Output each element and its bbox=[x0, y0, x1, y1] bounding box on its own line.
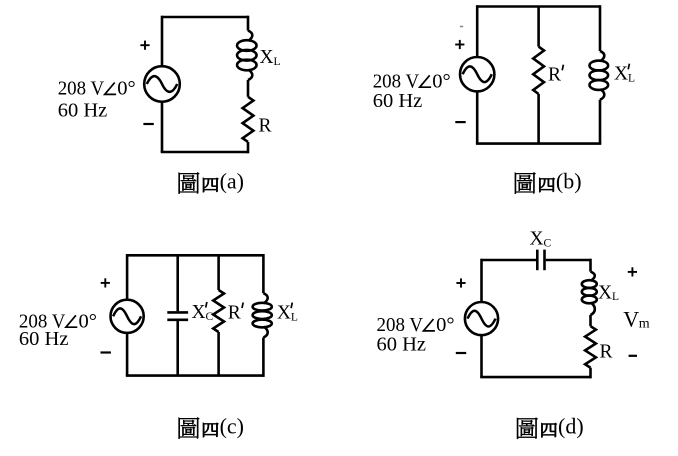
wire right lower (d) bbox=[589, 368, 592, 379]
label XC (d) bbox=[530, 229, 552, 250]
plus terminal (a) bbox=[140, 41, 149, 50]
faint scan artifact dash (b) bbox=[460, 26, 463, 28]
minus terminal (c) bbox=[101, 351, 111, 353]
svg-text:0°: 0° bbox=[436, 314, 454, 336]
svg-text:L: L bbox=[628, 73, 635, 85]
wire right lower (a) bbox=[247, 142, 250, 153]
svg-text:V: V bbox=[623, 306, 639, 331]
wire middle upper (b) bbox=[537, 7, 540, 47]
svg-text:R: R bbox=[600, 341, 613, 362]
label XL' (b) bbox=[614, 64, 635, 85]
inductor XL' (c) bbox=[253, 293, 272, 337]
svg-text:X: X bbox=[598, 282, 612, 303]
svg-text:C: C bbox=[206, 311, 214, 323]
svg-text:(a): (a) bbox=[220, 168, 244, 193]
wire left lower (a) bbox=[161, 102, 164, 152]
wire left upper (b) bbox=[476, 5, 479, 57]
svg-text:C: C bbox=[544, 238, 552, 250]
wire coil lower (c) bbox=[262, 338, 265, 377]
plus terminal Vm (d) bbox=[628, 267, 637, 276]
minus terminal Vm (d) bbox=[629, 355, 637, 357]
inductor XL (a) bbox=[237, 31, 256, 80]
wire right lower (b) bbox=[599, 100, 602, 144]
svg-text:R: R bbox=[548, 65, 561, 86]
(c): source value text 208 V angle 0 deg, 60 Hz bbox=[19, 310, 97, 350]
svg-text:60 Hz: 60 Hz bbox=[373, 90, 423, 112]
wire bottom (a) bbox=[161, 151, 248, 154]
circuit (c): parallel source, capacitor XC-prime, resistor R-prime, inductor XL-prime bbox=[19, 254, 298, 439]
svg-text:(d): (d) bbox=[558, 414, 584, 439]
wire right upper (d) bbox=[589, 259, 592, 272]
label R' (c) bbox=[228, 303, 243, 324]
(a): source value text 208 V angle 0 deg, 60 Hz bbox=[58, 78, 136, 122]
AC source (b) 208V 60Hz bbox=[460, 57, 494, 91]
label XC' (c) bbox=[192, 302, 214, 323]
caption tu-si-(c) bbox=[179, 413, 244, 438]
wire right upper (b) bbox=[599, 5, 602, 51]
resistor R (d) bbox=[585, 326, 596, 368]
plus terminal (b) bbox=[455, 40, 464, 49]
capacitor XC (d) bbox=[537, 250, 544, 271]
caption tu-si-(a) bbox=[179, 168, 244, 193]
wire bottom (b) bbox=[476, 142, 601, 145]
wire left upper (c) bbox=[126, 254, 129, 300]
AC source (a) 208V 60Hz bbox=[144, 66, 180, 102]
svg-text:60 Hz: 60 Hz bbox=[377, 334, 427, 356]
wire left lower (d) bbox=[480, 335, 483, 377]
svg-text:X: X bbox=[277, 303, 291, 324]
wire bottom (d) bbox=[480, 376, 590, 379]
svg-text:(b): (b) bbox=[556, 168, 582, 193]
caption tu-si-(d) bbox=[517, 414, 584, 439]
circuit (a): series source, inductor XL, resistor R bbox=[58, 16, 281, 194]
label XL (d) bbox=[598, 282, 619, 303]
wire R upper (c) bbox=[217, 255, 220, 290]
wire R lower (c) bbox=[217, 332, 220, 376]
minus terminal (b) bbox=[455, 121, 465, 123]
plus terminal (c) bbox=[101, 278, 110, 287]
wire coil upper (c) bbox=[262, 254, 265, 293]
(b): source value text 208 V angle 0 deg, 60 Hz bbox=[373, 70, 451, 111]
label XL (a) bbox=[260, 47, 281, 68]
svg-text:m: m bbox=[639, 316, 650, 331]
svg-text:(c): (c) bbox=[220, 413, 244, 438]
wire middle lower (b) bbox=[537, 94, 540, 144]
wire cap lower (c) bbox=[176, 321, 179, 376]
wire top (b) bbox=[477, 5, 600, 8]
label XL' (c) bbox=[277, 303, 298, 324]
wire left upper (d) bbox=[480, 259, 483, 302]
svg-text:X: X bbox=[260, 47, 274, 68]
svg-text:0°: 0° bbox=[432, 70, 450, 92]
svg-text:R: R bbox=[259, 115, 272, 136]
plus terminal source (d) bbox=[456, 278, 465, 287]
svg-text:L: L bbox=[274, 56, 281, 68]
svg-text:60 Hz: 60 Hz bbox=[58, 99, 108, 121]
svg-text:L: L bbox=[612, 291, 619, 303]
wire left upper (a) bbox=[161, 16, 164, 67]
wire cap upper (c) bbox=[176, 255, 179, 311]
wire top left (d) bbox=[482, 259, 537, 262]
svg-text:X: X bbox=[614, 64, 628, 85]
caption tu-si-(b) bbox=[515, 168, 582, 193]
AC source (d) 208V 60Hz bbox=[465, 302, 498, 335]
minus terminal (a) bbox=[143, 123, 153, 125]
label Vm (d) bbox=[623, 306, 650, 331]
circuit (d): series source, capacitor XC, inductor XL, resistor R, output Vm bbox=[377, 229, 650, 439]
wire bottom (c) bbox=[126, 374, 264, 377]
wire top (c) bbox=[127, 254, 263, 257]
resistor R' (b) bbox=[533, 47, 544, 94]
svg-text:X: X bbox=[192, 302, 206, 323]
resistor R' (c) bbox=[213, 290, 224, 332]
svg-text:60 Hz: 60 Hz bbox=[19, 328, 69, 350]
(d): source value text 208 V angle 0 deg, 60 Hz bbox=[377, 314, 455, 355]
minus terminal source (d) bbox=[456, 352, 466, 354]
wire top right (d) bbox=[546, 259, 591, 262]
inductor XL' (b) bbox=[590, 51, 609, 100]
inductor XL (d) bbox=[582, 272, 597, 315]
resistor R (a) bbox=[243, 97, 254, 142]
wire top (a) bbox=[162, 16, 248, 19]
AC source (c) 208V 60Hz bbox=[111, 300, 144, 333]
svg-text:0°: 0° bbox=[117, 78, 135, 100]
circuit (b): parallel source, resistor R-prime, inductor XL-prime bbox=[373, 5, 635, 194]
svg-text:L: L bbox=[291, 311, 298, 323]
label R' (b) bbox=[548, 65, 563, 86]
wire right upper (a) bbox=[247, 16, 250, 31]
wire left lower (b) bbox=[476, 91, 479, 143]
svg-text:X: X bbox=[530, 229, 544, 250]
svg-text:208 V: 208 V bbox=[58, 78, 105, 100]
wire left lower (c) bbox=[126, 333, 129, 376]
wire right middle (d) bbox=[589, 315, 592, 326]
capacitor XC' (c) bbox=[167, 312, 188, 319]
svg-text:R: R bbox=[228, 303, 241, 324]
svg-text:0°: 0° bbox=[79, 310, 97, 332]
wire right middle (a) bbox=[247, 80, 250, 97]
